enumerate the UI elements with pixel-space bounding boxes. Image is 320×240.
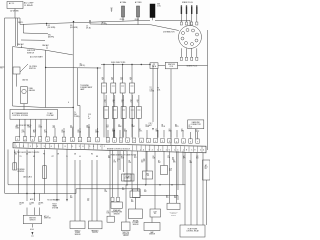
junction bottom bus 2 (145, 184, 146, 185)
spark plug 4 symbol (196, 5, 198, 25)
wire into switch box 1 (26, 208, 28, 216)
svg-text:3: 3 (108, 140, 109, 142)
connector pin box 6 (53, 137, 57, 141)
wire injector row2 4 down (131, 118, 133, 137)
svg-text:LG: LG (79, 156, 81, 158)
junction bottom bus 1 (126, 184, 127, 185)
wire pnp 2 (96, 160, 98, 221)
wire bus C short (21, 39, 45, 41)
connector pin box 11 (96, 138, 100, 142)
wire below right strip extra 3 (177, 151, 179, 190)
svg-text:A/T TRANSMISSIONCONTROL SYSTEM: A/T TRANSMISSIONCONTROL SYSTEM (12, 112, 29, 117)
svg-text:GY: GY (33, 156, 35, 158)
wire bottom bus2 drop a (139, 189, 141, 196)
connector pin box 9 (78, 137, 82, 141)
svg-text:3: 3 (32, 139, 33, 141)
wire label-box pin 1 down (19, 120, 21, 138)
box governor solenoid (161, 166, 168, 175)
connector pin box 7 (62, 137, 66, 141)
svg-text:1: 1 (89, 140, 90, 142)
wire injector row2 5 up (138, 95, 140, 107)
wire tps box down (125, 185, 127, 222)
wire jog x77.5-80 (78, 105, 81, 107)
wire x157 down (156, 69, 158, 140)
svg-text:A/C COMPCL RELAY: A/C COMPCL RELAY (24, 2, 34, 7)
wire bus B drop (22, 24, 24, 33)
connector pin box 4 (38, 137, 42, 141)
svg-text:VEHICLESPEEDSENSOR: VEHICLESPEEDSENSOR (75, 231, 81, 236)
wire above strip left extra 4 (79, 128, 81, 137)
connector pin box 19 (154, 138, 158, 142)
connector pin box 13 (113, 138, 117, 142)
junction on bus A x73.5 (73, 21, 74, 22)
svg-text:C128LB: C128LB (196, 156, 199, 160)
wire above strip left extra 6 (97, 128, 99, 137)
junction injector bus x132 (131, 64, 132, 65)
wire inside box from switch (16, 74, 18, 87)
junction bottom bus 3 (159, 184, 160, 185)
small element top x111 (110, 8, 112, 12)
box map sensor (144, 223, 160, 231)
wire below strip left 5 (44, 150, 46, 194)
wire below strip left 1 (13, 150, 15, 170)
svg-text:3: 3 (169, 141, 170, 143)
box vehicle speed sensor (70, 221, 85, 229)
wire injector row2 4 up (131, 95, 133, 107)
ballast resistor 2 (137, 6, 140, 17)
wire ect box link (135, 198, 137, 210)
to-tach small box (150, 63, 158, 69)
connector pin box 2 (23, 137, 27, 141)
svg-text:ECM POWERCONTROL RELAY: ECM POWERCONTROL RELAY (186, 229, 199, 233)
wire injector row2 1 down (105, 118, 107, 137)
svg-text:CAV 30: CAV 30 (22, 79, 28, 82)
connector pin box 14 (119, 138, 123, 142)
junction y68 x97 (97, 67, 98, 68)
wire above right strip 5 (157, 130, 159, 138)
svg-text:BR: BR (96, 156, 98, 158)
wire coil box down to strip (170, 69, 172, 145)
spark plug 1 symbol (180, 5, 182, 25)
svg-text:2: 2 (162, 141, 163, 143)
svg-text:T408YL: T408YL (87, 199, 90, 203)
connector pin box 17 (140, 138, 144, 142)
svg-text:ENGINE CONTROL MODULE: ENGINE CONTROL MODULE (107, 149, 131, 151)
wire left rail x4.5 (4, 18, 6, 193)
tick at left edge (0, 66, 5, 68)
wire tach box to coil box (158, 65, 165, 67)
junction on bus A x90 (89, 20, 90, 21)
svg-text:B+: B+ (1, 68, 3, 70)
wire tps 1 (123, 151, 125, 172)
wire above strip left extra 2 (63, 128, 65, 137)
wire map 1 (151, 217, 153, 223)
svg-text:PK: PK (43, 154, 45, 156)
box acr relay (124, 174, 134, 181)
wire crank a (146, 151, 148, 171)
wire left outer corner H (5, 193, 44, 195)
wire pnp 1 (91, 160, 93, 221)
wire above strip extra x147 (146, 130, 148, 139)
wire below strip left 6 (56, 150, 58, 199)
distributor terminal 5 (195, 39, 198, 42)
svg-text:C132OR: C132OR (22, 130, 25, 134)
wire above right strip 2 (113, 130, 115, 138)
spark plug 2 symbol (185, 5, 187, 25)
wire drop into box left (20, 46, 22, 49)
svg-text:4: 4 (176, 141, 177, 143)
svg-text:ENGINECOOLANTSENSOR: ENGINECOOLANTSENSOR (132, 221, 139, 226)
svg-text:C134TN: C134TN (53, 126, 56, 130)
box c13 small left (107, 216, 114, 222)
connector engine coolant sensor (130, 191, 140, 198)
svg-text:6: 6 (190, 142, 191, 144)
svg-text:YL: YL (66, 156, 68, 158)
connector pin box 24 (189, 139, 193, 143)
svg-text:DB/YL: DB/YL (18, 22, 23, 24)
svg-text:2: 2 (25, 139, 26, 141)
wire distributor lower 1 (180, 48, 182, 57)
box mid pair (150, 209, 161, 217)
svg-text:4: 4 (68, 102, 69, 104)
injector row2 3 (121, 107, 126, 119)
wire injector row2 3 down (123, 118, 125, 137)
svg-text:SPARK PLUG: SPARK PLUG (187, 65, 198, 68)
wire into switch box 2 (33, 208, 35, 216)
wire bus B to coil (90, 23, 151, 26)
box right edge tall (203, 160, 211, 180)
wire bottom bus y184.8 (8, 184, 186, 186)
wire above right strip 3 (119, 130, 121, 138)
terminal square lower 3 (191, 57, 193, 60)
wire above strip x89 (88, 124, 90, 137)
distributor terminal 1 (182, 32, 185, 35)
svg-text:8: 8 (72, 140, 73, 142)
injector row1 1 (102, 83, 107, 93)
fuel gauge solenoid body (21, 87, 28, 104)
svg-text:5: 5 (47, 140, 48, 142)
connector pin box 8 (71, 137, 75, 141)
ignition coil primary bar (150, 4, 155, 18)
wire below strip left 3 (26, 150, 28, 201)
wire iat 2 (117, 151, 119, 198)
wire injector row2 5 down (138, 118, 140, 137)
svg-text:7: 7 (64, 140, 65, 142)
wire right edge rail low (206, 180, 208, 225)
connector pin box 20 (161, 138, 165, 142)
wire injector row1 4 up (131, 65, 133, 84)
wire rail x20 drop (19, 18, 21, 24)
connector pin box 18 (147, 138, 151, 142)
wire x97 down to strip (97, 68, 99, 137)
wire bottom bus2 end drop (177, 195, 179, 200)
wire ect conn 1 (131, 151, 133, 191)
wire tps 2 (126, 151, 128, 185)
junction on bus A x46.6 (46, 23, 47, 24)
svg-text:INJWT: INJWT (102, 78, 104, 82)
svg-text:GOVSOL: GOVSOL (169, 169, 172, 173)
injector row2 4 (130, 107, 135, 119)
wire injector row1 1 up (103, 65, 105, 84)
box intake air temp sensor (111, 202, 122, 208)
wire drop from bus x90 (89, 21, 91, 24)
terminal square lower 1 (180, 57, 182, 60)
svg-text:TO SPEEDCONTROL: TO SPEEDCONTROL (17, 169, 25, 173)
ground wire below box (31, 224, 33, 228)
injector row1 2 (111, 83, 116, 93)
junction injector bus x141.3 (141, 64, 142, 65)
junction injector bus x104 (103, 64, 104, 65)
wire above strip left extra 1 (54, 128, 56, 137)
wire bus H y18 (5, 17, 21, 19)
svg-text:PK OR BK WT DG YL: PK OR BK WT DG YL (16, 125, 32, 127)
wire c13 small left (109, 151, 111, 217)
wire ECM relay feed 4 (202, 152, 204, 225)
wire below strip left 4 (33, 150, 35, 201)
connector pin box 25 (196, 139, 200, 143)
wire above right strip 6 (163, 130, 165, 138)
terminal square lower 2 (185, 57, 187, 60)
terminal square lower 4 (196, 57, 198, 60)
ECM connector strip (13, 143, 206, 153)
injector row2 1 (104, 107, 109, 119)
wire main bus A to coil (20, 20, 150, 24)
wire injector row1 2 up (112, 65, 114, 84)
wire below right strip extra 2 (145, 151, 147, 185)
wire injector row1 3 down (122, 93, 124, 137)
svg-text:4: 4 (114, 141, 115, 143)
svg-text:6: 6 (127, 141, 128, 143)
svg-text:4: 4 (40, 140, 41, 142)
svg-text:CAV A/C: CAV A/C (42, 44, 50, 47)
box throttle position sensor (121, 222, 130, 231)
svg-text:IGNITIONSWITCH: IGNITIONSWITCH (29, 218, 36, 222)
junction y193.5 x27 (26, 193, 27, 194)
wire vss 2 (79, 160, 81, 221)
wire above right strip 4 (125, 130, 127, 138)
box tps connector small (122, 174, 132, 181)
wire rail pair b (16, 18, 18, 46)
connector pin box 15 (126, 138, 130, 142)
distributor terminal 6 (191, 43, 194, 46)
connector pin box 16 (132, 138, 136, 142)
svg-text:BK: BK (15, 154, 17, 156)
wire drop x80 (79, 106, 81, 138)
distributor terminal 3 (192, 29, 195, 32)
svg-text:14 WT/BK: 14 WT/BK (10, 11, 19, 13)
wire bottom bus2 right seg (140, 194, 178, 196)
box crankshaft position sensor (167, 203, 180, 209)
wire ECM relay feed 2 (190, 152, 192, 225)
wire distributor lower 3 (191, 48, 193, 57)
wire crank b2 (176, 151, 178, 203)
ground arrow bottom-left (31, 232, 33, 235)
wire above right strip 9 (182, 130, 184, 138)
svg-text:INJWT: INJWT (130, 78, 132, 82)
wire ect conn 2 (137, 151, 139, 191)
wire crank b1 (169, 151, 171, 203)
fuel gauge solenoid coil circle (22, 89, 26, 93)
connector pin box 22 (175, 139, 179, 143)
svg-text:J2 8DG: J2 8DG (120, 19, 125, 21)
wire above right strip 1 (107, 130, 109, 138)
svg-text:6: 6 (55, 140, 56, 142)
wire drop x77.5 (77, 68, 79, 106)
connector pin box 3 (31, 137, 35, 141)
box park neutral switch (89, 221, 103, 229)
wire bottom bus2 jog (75, 189, 77, 194)
ignition coil box (165, 62, 177, 69)
svg-text:TN: TN (20, 156, 22, 158)
svg-text:5: 5 (183, 141, 184, 143)
box c13 lower mid (133, 189, 141, 198)
svg-text:9: 9 (148, 141, 149, 143)
junction box right edge bus (45, 67, 46, 68)
data link connector box (188, 120, 204, 129)
svg-text:OR: OR (57, 153, 59, 155)
wire injector row1 3 up (122, 65, 124, 84)
svg-text:DG: DG (26, 153, 28, 155)
svg-text:INJWT: INJWT (111, 78, 113, 82)
wire distributor lower 2 (186, 48, 188, 57)
wire above right strip 8 (176, 130, 178, 138)
wire injector row2 2 down (114, 118, 116, 137)
wire injector row1 4 down (131, 93, 133, 137)
connector pin box 10 (87, 137, 91, 141)
distributor terminal 8 (181, 37, 184, 40)
wire data link down (195, 129, 197, 140)
wire label-box pin 5 down (40, 120, 42, 138)
distributor terminal 7 (185, 42, 188, 45)
svg-text:DGWT: DGWT (143, 159, 145, 163)
svg-text:SPARK PLUG: SPARK PLUG (182, 1, 193, 4)
svg-text:1: 1 (17, 139, 18, 141)
wire ECM relay feed 1 (184, 152, 186, 225)
wire coil to distributor top (155, 19, 190, 21)
box ignition switch bottom-left (23, 215, 41, 223)
wire injector row2 2 up (114, 95, 116, 107)
wire box feed 3 (39, 194, 41, 202)
iat terminal boxes (111, 197, 114, 201)
module box (instrument/ignition module) (13, 47, 46, 108)
wire bottom bus2 left seg (43, 193, 76, 195)
wire gov (163, 151, 165, 165)
wire below right strip extra 1 (119, 151, 121, 170)
wire resistor1 down (122, 17, 124, 21)
wire right edge rail (207, 30, 209, 150)
wire iat 1 (112, 151, 114, 198)
wire injector row2 3 up (123, 95, 125, 107)
ballast resistor 1 (122, 6, 125, 17)
box crankshaft cluster a (143, 171, 153, 179)
wire vss 1 (74, 160, 76, 221)
wire resistor2 down (137, 17, 139, 25)
switch arm diagonal (20, 64, 28, 72)
wire bus B slanted (23, 32, 48, 35)
wire drop into distributor cap (189, 20, 191, 26)
svg-text:J3 8BK: J3 8BK (135, 19, 140, 21)
distributor terminal 2 (186, 29, 189, 32)
svg-text:RD: RD (91, 154, 93, 156)
connector pin box 23 (182, 139, 186, 143)
wire above strip extra x197 (197, 132, 199, 139)
wire relay to bus (14, 9, 16, 19)
wire ECM relay feed 3 (196, 152, 198, 225)
wire drop into box right (46, 47, 48, 50)
wire coil box to right rail (178, 65, 208, 67)
wire coil tower to cap rim (151, 25, 179, 31)
svg-text:G100: G100 (30, 229, 34, 231)
wire drop x73 from main bus (72, 22, 74, 138)
svg-text:DISTRIBUTOR: DISTRIBUTOR (163, 32, 175, 34)
wire label-box pin 6 down (45, 120, 47, 138)
svg-text:7: 7 (134, 141, 135, 143)
junction injector bus x113.3 (113, 64, 114, 65)
wire x153 down (152, 65, 154, 123)
oil pressure switch body (13, 67, 20, 74)
svg-text:5: 5 (121, 141, 122, 143)
connector pin box 21 (168, 139, 172, 143)
distributor terminal 4 (196, 33, 199, 36)
connector pin box 1 (16, 137, 20, 141)
wire label-box pin 4 down (35, 120, 37, 138)
arrow end x67 (66, 199, 68, 202)
box engine coolant sensor (129, 209, 143, 219)
wire below strip left 2 (18, 150, 20, 194)
svg-text:7: 7 (197, 142, 198, 144)
wire box bottom extension (46, 107, 73, 109)
component on wire x44.3 (43, 166, 47, 179)
wire bottom bus2 seg b (76, 188, 140, 190)
svg-text:THROTTLEPOSITIONSENSOR: THROTTLEPOSITIONSENSOR (122, 232, 129, 237)
junction injector bus end (149, 64, 150, 65)
svg-text:8: 8 (141, 141, 142, 143)
arrow under x153 (152, 128, 153, 131)
junction bottom bus 4 (171, 184, 172, 185)
wire below right strip extra 4 (182, 151, 184, 185)
svg-text:2: 2 (97, 140, 98, 142)
wire injector bus (101, 64, 150, 66)
wire below strip left 7 (66, 150, 68, 199)
label box A/T transmission control (10, 110, 58, 120)
svg-text:DB: DB (74, 154, 76, 156)
wire injector row1 1 down (103, 93, 105, 137)
svg-text:13 14 15 16 17 18 19 20: 13 14 15 16 17 18 19 20 (140, 150, 204, 152)
svg-text:AC CL: AC CL (9, 2, 14, 5)
svg-text:WT: WT (52, 156, 54, 158)
box ECM relay big (180, 225, 205, 237)
arrow end x57 (56, 199, 58, 202)
wire label-box pin 2 down (24, 120, 26, 138)
wire above strip extra x190 (190, 132, 192, 139)
wire bus H y68 (46, 67, 101, 70)
injector row2 5 (136, 107, 141, 119)
wire above right strip 7 (170, 130, 172, 138)
distributor cap circle (179, 26, 202, 49)
svg-text:A/T BAL: A/T BAL (120, 1, 126, 4)
wire drop from bus x46.6 (46, 23, 48, 26)
junction injector bus x122.6 (122, 64, 123, 65)
svg-text:A/T RES: A/T RES (135, 1, 142, 4)
spark plug 3 symbol (191, 5, 193, 25)
relay K1 (A/C compressor clutch relay) (7, 2, 23, 9)
svg-text:CAV A/C: CAV A/C (17, 43, 25, 46)
wire coil stub (152, 18, 154, 21)
wire above strip left extra 3 (72, 128, 74, 137)
junction y193.5 x34 (34, 193, 35, 194)
junction box bottom extension (73, 107, 74, 108)
strip cell tick marks (15, 143, 202, 152)
